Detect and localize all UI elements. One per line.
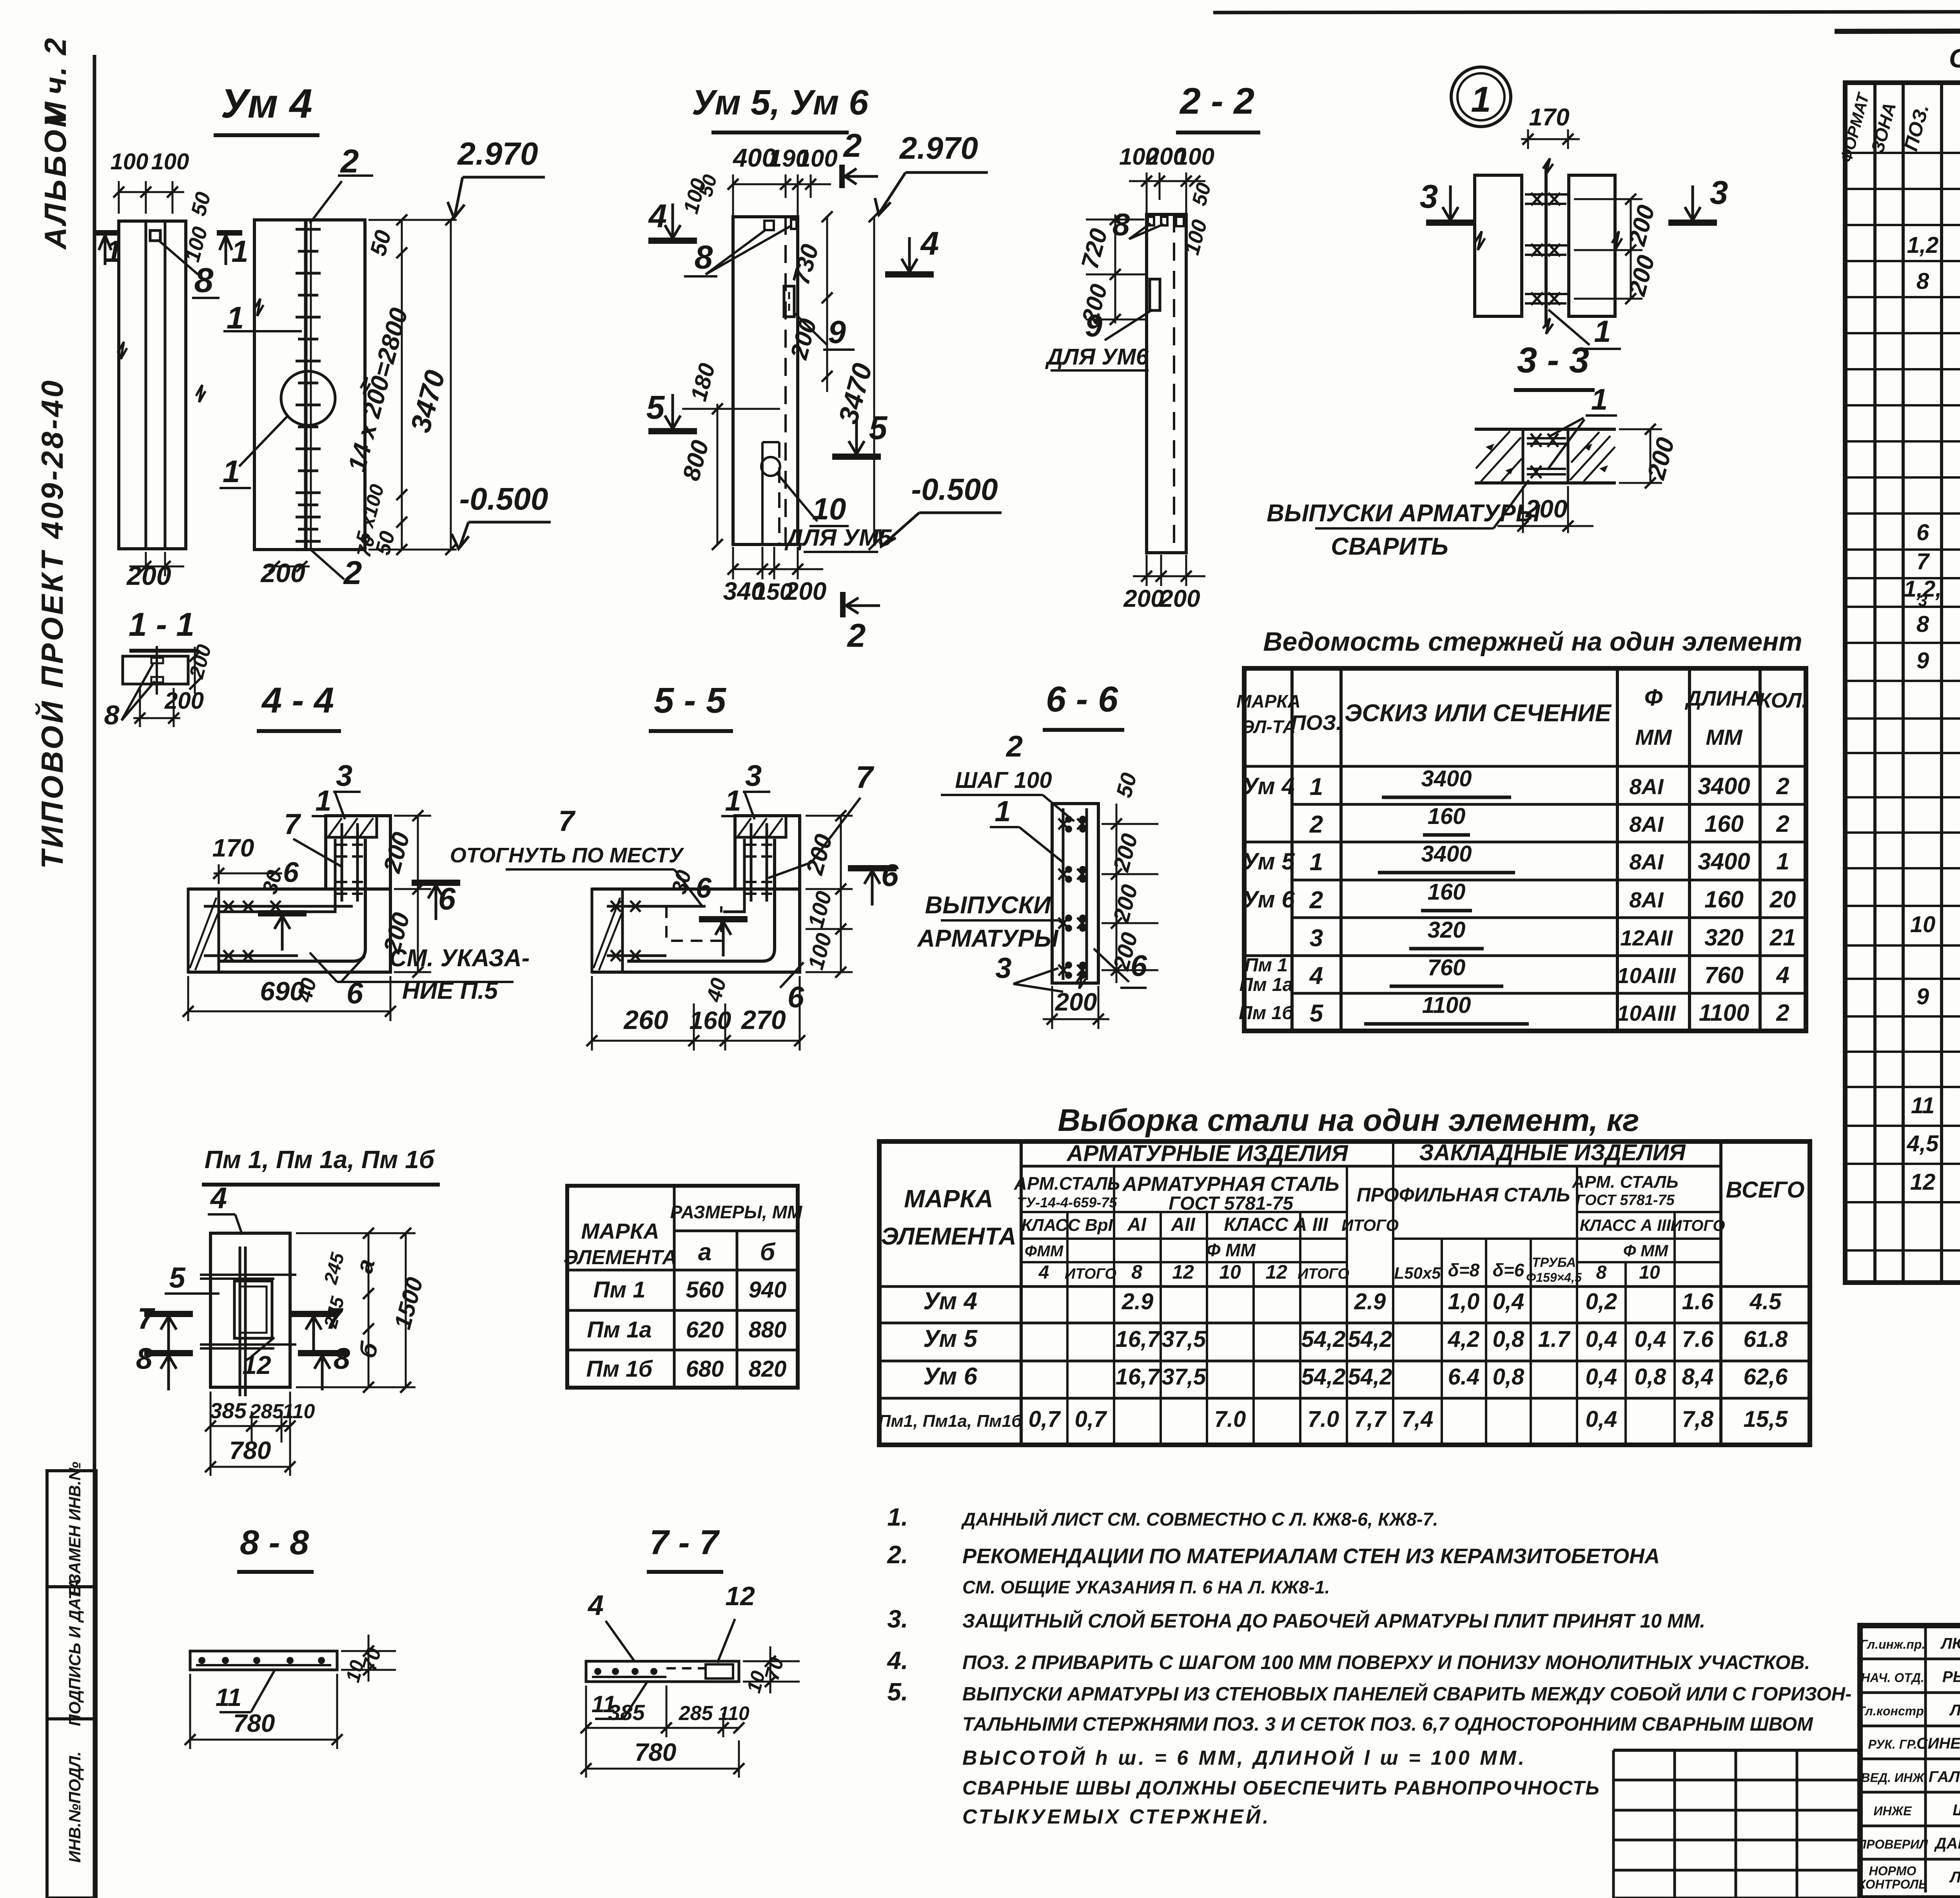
svg-text:6.4: 6.4 bbox=[1448, 1364, 1480, 1390]
svg-text:1: 1 bbox=[1310, 849, 1323, 876]
svg-text:ВЗАМЕН ИНВ.№: ВЗАМЕН ИНВ.№ bbox=[65, 1462, 84, 1596]
svg-text:940: 940 bbox=[749, 1277, 787, 1303]
Um4 leader to label 1 (detail) bbox=[239, 416, 287, 466]
svg-text:8: 8 bbox=[334, 1342, 350, 1375]
svg-text:4,5: 4,5 bbox=[1907, 1131, 1939, 1156]
svg-text:СТЫКУЕМЫХ СТЕРЖНЕЙ.: СТЫКУЕМЫХ СТЕРЖНЕЙ. bbox=[962, 1805, 1271, 1828]
svg-text:7: 7 bbox=[1916, 549, 1930, 574]
svg-text:4: 4 bbox=[648, 198, 667, 234]
svg-text:8,4: 8,4 bbox=[1682, 1364, 1714, 1390]
svg-text:8: 8 bbox=[194, 261, 214, 299]
svg-text:10АIII: 10АIII bbox=[1617, 963, 1676, 988]
Um5 embed plate pos.9 bbox=[784, 286, 794, 317]
svg-text:4,2: 4,2 bbox=[1448, 1326, 1480, 1352]
svg-text:8: 8 bbox=[136, 1342, 153, 1375]
svg-text:Ум 6: Ум 6 bbox=[923, 1363, 978, 1390]
svg-text:-0.500: -0.500 bbox=[911, 472, 998, 506]
svg-text:ТУ-14-4-659-75: ТУ-14-4-659-75 bbox=[1017, 1194, 1117, 1210]
svg-text:Ум 6: Ум 6 bbox=[1242, 886, 1295, 913]
svg-text:1: 1 bbox=[1594, 314, 1611, 348]
svg-text:2: 2 bbox=[1005, 730, 1023, 763]
3-3 joint bars with X bbox=[1527, 437, 1566, 439]
svg-text:ЛЮБАВИН: ЛЮБАВИН bbox=[1940, 1635, 1960, 1652]
svg-text:200: 200 bbox=[164, 688, 204, 714]
svg-text:ДАННЫЙ ЛИСТ СМ. СОВМЕСТНО: ДАННЫЙ ЛИСТ СМ. СОВМЕСТНО С Л. КЖ8-6, КЖ… bbox=[961, 1509, 1438, 1530]
svg-text:385: 385 bbox=[608, 1700, 645, 1725]
svg-text:100: 100 bbox=[1175, 143, 1214, 170]
detail 1 circle badge bbox=[1451, 67, 1511, 127]
svg-text:200: 200 bbox=[1055, 988, 1097, 1016]
svg-text:ПОДПИСЬ И ДАТА: ПОДПИСЬ И ДАТА bbox=[65, 1578, 84, 1726]
spec table frame bbox=[1845, 83, 1960, 1283]
svg-text:СВАРНЫЕ ШВЫ ДОЛЖНЫ ОБЕСПЕЧИ: СВАРНЫЕ ШВЫ ДОЛЖНЫ ОБЕСПЕЧИТЬ РАВНОПРОЧН… bbox=[962, 1777, 1600, 1799]
svg-text:а: а bbox=[350, 1256, 380, 1276]
svg-text:560: 560 bbox=[686, 1277, 724, 1303]
svg-text:200: 200 bbox=[1108, 882, 1143, 925]
svg-text:8: 8 bbox=[104, 700, 120, 730]
svg-text:10АIII: 10АIII bbox=[1617, 1001, 1676, 1025]
svg-text:ВСЕГО: ВСЕГО bbox=[1726, 1177, 1805, 1203]
svg-text:ДЛЯ УМ6: ДЛЯ УМ6 bbox=[1045, 344, 1149, 370]
Um5 elevation outline bbox=[733, 217, 798, 544]
2-2 outline bbox=[1147, 214, 1186, 553]
svg-text:1: 1 bbox=[231, 234, 248, 269]
svg-text:ФММ: ФММ bbox=[1025, 1243, 1064, 1260]
Um5 section mark 4 left bbox=[648, 238, 697, 244]
2-2 embed plate pos.9 bbox=[1150, 279, 1160, 310]
svg-text:6: 6 bbox=[438, 881, 456, 916]
svg-text:7.0: 7.0 bbox=[1214, 1406, 1246, 1432]
Um4 left elevation outline bbox=[119, 221, 186, 549]
svg-text:5.: 5. bbox=[887, 1678, 908, 1706]
svg-text:ВЕД. ИНЖ: ВЕД. ИНЖ bbox=[1861, 1771, 1925, 1785]
svg-text:2.9: 2.9 bbox=[1122, 1289, 1154, 1314]
svg-text:2.9: 2.9 bbox=[1354, 1289, 1386, 1314]
svg-text:АРМ.СТАЛЬ: АРМ.СТАЛЬ bbox=[1014, 1173, 1120, 1194]
svg-text:ЭЛ-ТА: ЭЛ-ТА bbox=[1241, 717, 1296, 737]
svg-text:4: 4 bbox=[920, 225, 939, 262]
svg-text:270: 270 bbox=[740, 1005, 786, 1035]
svg-text:0,4: 0,4 bbox=[1493, 1289, 1524, 1314]
sheet frame left border line bbox=[93, 55, 96, 1898]
7-7 embedded channel pos.12 bbox=[706, 1664, 733, 1678]
svg-text:4: 4 bbox=[587, 1590, 604, 1621]
svg-text:1100: 1100 bbox=[1699, 1000, 1749, 1026]
svg-text:ДЛИНА: ДЛИНА bbox=[1685, 687, 1762, 710]
8-8 dim 780 bbox=[190, 1739, 337, 1741]
svg-text:200: 200 bbox=[378, 829, 415, 876]
svg-text:МАРКА: МАРКА bbox=[1236, 691, 1301, 711]
Um4 right elevation outline bbox=[254, 220, 365, 550]
svg-text:12АII: 12АII bbox=[1620, 925, 1673, 950]
approval grid left of title block bbox=[1613, 1749, 1860, 1752]
svg-text:АРМАТУРНАЯ СТАЛЬ: АРМАТУРНАЯ СТАЛЬ bbox=[1122, 1173, 1339, 1196]
Um4 break marks left rect bbox=[118, 342, 127, 359]
svg-text:0,8: 0,8 bbox=[1493, 1364, 1524, 1390]
svg-text:260: 260 bbox=[623, 1005, 668, 1035]
Um4 embed plate pos.8 bbox=[150, 230, 160, 241]
svg-text:320: 320 bbox=[1704, 924, 1744, 951]
svg-text:110: 110 bbox=[283, 1400, 315, 1423]
svg-text:2.970: 2.970 bbox=[899, 131, 978, 165]
svg-text:7.0: 7.0 bbox=[1308, 1406, 1339, 1432]
svg-text:4.: 4. bbox=[886, 1646, 908, 1675]
Um4 vertical dim chain 14x200=2800 / 3470 bbox=[401, 220, 403, 550]
svg-text:б: б bbox=[760, 1239, 776, 1266]
vedomost row lines bbox=[1292, 765, 1806, 768]
Um5 section mark 2 top bbox=[839, 165, 845, 188]
svg-text:7: 7 bbox=[558, 805, 576, 837]
svg-text:Гл.констр.: Гл.констр. bbox=[1858, 1704, 1927, 1718]
svg-text:160: 160 bbox=[1704, 811, 1744, 837]
svg-text:100: 100 bbox=[803, 889, 837, 931]
svg-text:Пм 1а: Пм 1а bbox=[1240, 974, 1293, 995]
svg-text:3: 3 bbox=[1710, 174, 1728, 211]
svg-text:АРМАТУРНЫЕ ИЗДЕЛИЯ: АРМАТУРНЫЕ ИЗДЕЛИЯ bbox=[1066, 1141, 1348, 1166]
svg-text:1.6: 1.6 bbox=[1682, 1289, 1714, 1314]
svg-text:СМ. ОБЩИЕ УКАЗАНИЯ П. 6: СМ. ОБЩИЕ УКАЗАНИЯ П. 6 НА Л. КЖ8-1. bbox=[962, 1577, 1330, 1597]
svg-text:780: 780 bbox=[635, 1738, 677, 1766]
svg-text:0,4: 0,4 bbox=[1635, 1326, 1666, 1352]
5-5 X weld marks bbox=[611, 901, 621, 912]
svg-text:8: 8 bbox=[1916, 611, 1929, 637]
svg-text:2: 2 bbox=[340, 143, 359, 180]
svg-text:37,5: 37,5 bbox=[1162, 1364, 1207, 1390]
Um5 leaders to label 8 bbox=[706, 229, 766, 274]
svg-text:12: 12 bbox=[1910, 1169, 1936, 1195]
3-3 left hatched panel bbox=[1476, 431, 1510, 468]
svg-text:3 - 3: 3 - 3 bbox=[1517, 340, 1589, 380]
Pm1 inner embed frame pos.12 bbox=[234, 1281, 272, 1338]
detail 1 weld bars with X marks bbox=[1525, 193, 1568, 196]
svg-text:5: 5 bbox=[646, 389, 665, 426]
svg-text:54,2: 54,2 bbox=[1301, 1326, 1346, 1352]
svg-text:50: 50 bbox=[365, 227, 396, 258]
svg-text:620: 620 bbox=[686, 1317, 724, 1343]
svg-text:200: 200 bbox=[1642, 434, 1680, 483]
svg-text:ТИПОВОЙ: ТИПОВОЙ bbox=[35, 699, 69, 869]
svg-text:5: 5 bbox=[1310, 1000, 1324, 1027]
svg-text:2: 2 bbox=[1776, 773, 1789, 799]
2-2 dashed axis bbox=[1173, 214, 1175, 553]
svg-text:КЛАСС А III: КЛАСС А III bbox=[1580, 1216, 1671, 1234]
svg-text:Пм 1б: Пм 1б bbox=[1239, 1003, 1294, 1023]
svg-text:5: 5 bbox=[869, 409, 888, 446]
svg-text:ПРОФИЛЬНАЯ СТАЛЬ: ПРОФИЛЬНАЯ СТАЛЬ bbox=[1357, 1184, 1570, 1206]
svg-text:385: 385 bbox=[210, 1398, 247, 1423]
svg-text:АII: АII bbox=[1171, 1214, 1196, 1235]
svg-text:0,8: 0,8 bbox=[1635, 1364, 1666, 1390]
svg-text:0,7: 0,7 bbox=[1029, 1406, 1061, 1432]
svg-text:6: 6 bbox=[696, 873, 712, 904]
svg-text:3470: 3470 bbox=[405, 367, 451, 435]
svg-text:1100: 1100 bbox=[1422, 993, 1471, 1018]
vyborka vertical lines bbox=[1066, 1212, 1069, 1445]
Um4 break marks right rect bbox=[361, 377, 370, 394]
svg-text:690: 690 bbox=[260, 976, 305, 1006]
svg-text:Пм 1б: Пм 1б bbox=[586, 1356, 653, 1382]
svg-text:1500: 1500 bbox=[389, 1275, 428, 1332]
6-6 dims right 50 200x3 bbox=[1116, 804, 1118, 983]
svg-text:КЛАСС А III: КЛАСС А III bbox=[1224, 1214, 1328, 1235]
svg-text:Ум 5: Ум 5 bbox=[1242, 848, 1295, 875]
Pm1 size table bbox=[567, 1186, 798, 1388]
svg-text:ПОЗ.: ПОЗ. bbox=[1291, 711, 1342, 735]
svg-text:16,7: 16,7 bbox=[1116, 1326, 1161, 1352]
svg-text:ЛАПКИН: ЛАПКИН bbox=[1949, 1702, 1960, 1719]
svg-text:ВЫПУСКИ АРМАТУРЫ ИЗ СТЕНОВЫХ: ВЫПУСКИ АРМАТУРЫ ИЗ СТЕНОВЫХ ПАНЕЛЕЙ СВА… bbox=[962, 1683, 1851, 1705]
Um4 detail circle on rebar bbox=[281, 371, 335, 425]
svg-text:4: 4 bbox=[1776, 962, 1789, 988]
svg-text:2: 2 bbox=[1309, 811, 1323, 838]
svg-text:2: 2 bbox=[1776, 811, 1789, 837]
svg-text:Пм 1, Пм 1а, Пм 1б: Пм 1, Пм 1а, Пм 1б bbox=[205, 1145, 436, 1174]
svg-text:720: 720 bbox=[1076, 226, 1112, 272]
detail 1 plan: left panel bbox=[1475, 175, 1522, 316]
5-5 top hatched block bbox=[735, 816, 786, 837]
svg-text:8: 8 bbox=[1596, 1262, 1607, 1283]
Um5 bottom inset dashed bbox=[761, 442, 764, 544]
svg-text:2 - 2: 2 - 2 bbox=[1179, 80, 1254, 122]
svg-text:0,8: 0,8 bbox=[1493, 1326, 1524, 1352]
svg-text:8 - 8: 8 - 8 bbox=[240, 1523, 309, 1562]
5-5 dims right 200 100 100 bbox=[840, 816, 842, 972]
Um5 section mark 5 right bbox=[832, 454, 881, 460]
svg-text:8: 8 bbox=[695, 239, 713, 276]
svg-text:ВЫСОТОЙ h ш. = 6 ММ, ДЛИНО: ВЫСОТОЙ h ш. = 6 ММ, ДЛИНОЙ l ш = 100 ММ… bbox=[962, 1746, 1526, 1769]
Pm1 section marks 7 8 left bbox=[144, 1311, 193, 1317]
svg-text:Ф: Ф bbox=[1644, 684, 1663, 711]
svg-text:КОНТРОЛЬ: КОНТРОЛЬ bbox=[1858, 1877, 1927, 1891]
svg-text:54,2: 54,2 bbox=[1348, 1364, 1392, 1390]
svg-text:1: 1 bbox=[1471, 80, 1491, 120]
svg-text:ВЫПУСКИ АРМАТУРЫ: ВЫПУСКИ АРМАТУРЫ bbox=[1267, 500, 1541, 527]
svg-text:ЭЛЕМЕНТА: ЭЛЕМЕНТА bbox=[563, 1246, 677, 1269]
svg-text:НАЧ. ОТД.: НАЧ. ОТД. bbox=[1861, 1671, 1924, 1685]
svg-text:4.5: 4.5 bbox=[1749, 1289, 1782, 1314]
svg-text:ЭСКИЗ ИЛИ СЕЧЕНИЕ: ЭСКИЗ ИЛИ СЕЧЕНИЕ bbox=[1345, 700, 1612, 727]
Um5 section mark 4 right bbox=[885, 271, 934, 278]
svg-text:ПОЗ. 2 ПРИВАРИТЬ С ШАГОМ 100: ПОЗ. 2 ПРИВАРИТЬ С ШАГОМ 100 ММ ПОВЕРХУ … bbox=[962, 1651, 1810, 1673]
svg-text:160: 160 bbox=[1428, 804, 1466, 829]
svg-text:9: 9 bbox=[828, 314, 846, 350]
svg-text:5 - 5: 5 - 5 bbox=[654, 680, 727, 720]
svg-text:АРМАТУРЫ: АРМАТУРЫ bbox=[916, 925, 1059, 952]
5-5 stepped bar pos.7 dashed bbox=[666, 906, 721, 941]
svg-text:ПРОЕКТ 409-28-40: ПРОЕКТ 409-28-40 bbox=[35, 378, 69, 688]
svg-text:1: 1 bbox=[105, 234, 122, 269]
svg-text:Ум 5, Ум 6: Ум 5, Ум 6 bbox=[692, 83, 869, 122]
4-4 X weld marks on slab bars bbox=[223, 901, 234, 912]
svg-text:L50x5: L50x5 bbox=[1394, 1264, 1441, 1282]
svg-text:ИТОГО: ИТОГО bbox=[1671, 1217, 1725, 1234]
svg-text:3400: 3400 bbox=[1421, 841, 1472, 867]
svg-text:1: 1 bbox=[1776, 848, 1789, 875]
svg-text:3: 3 bbox=[1310, 925, 1323, 952]
inventory stamp boxes bottom-left bbox=[47, 1471, 96, 1898]
svg-text:200: 200 bbox=[1123, 585, 1164, 612]
svg-text:0,4: 0,4 bbox=[1586, 1326, 1617, 1352]
svg-text:200: 200 bbox=[1108, 831, 1143, 875]
svg-text:200: 200 bbox=[801, 831, 838, 878]
svg-text:ШАБЛЯ: ШАБЛЯ bbox=[1953, 1802, 1960, 1819]
4-4 label 6 with section arrow bbox=[412, 880, 460, 886]
svg-text:Ум 5: Ум 5 bbox=[923, 1325, 978, 1352]
svg-text:7.6: 7.6 bbox=[1682, 1326, 1714, 1352]
svg-text:20: 20 bbox=[1769, 886, 1796, 913]
svg-text:6: 6 bbox=[283, 857, 299, 888]
svg-text:245: 245 bbox=[320, 1294, 349, 1330]
4-4 L-bar pos.6 bbox=[220, 839, 365, 961]
svg-text:1: 1 bbox=[223, 454, 240, 489]
svg-text:6: 6 bbox=[881, 858, 899, 893]
Um5 bottom dims 340 150 200 bbox=[733, 568, 823, 570]
vyborka header: armaturnye / zakladnye bbox=[1021, 1165, 1721, 1168]
title block personnel rows bbox=[1860, 1658, 1960, 1660]
svg-text:0,4: 0,4 bbox=[1586, 1406, 1617, 1432]
7-7 dims 385 285 110 bbox=[586, 1727, 739, 1729]
svg-text:285: 285 bbox=[679, 1702, 713, 1725]
Pm1 section marks 7 8 right bbox=[289, 1311, 338, 1317]
svg-text:7: 7 bbox=[284, 808, 301, 840]
svg-text:780: 780 bbox=[233, 1709, 275, 1737]
Pm1 vertical double bar pos.4 bbox=[239, 1247, 241, 1396]
svg-text:6: 6 bbox=[1916, 520, 1929, 545]
svg-text:7,8: 7,8 bbox=[1682, 1406, 1714, 1432]
svg-text:1,2: 1,2 bbox=[1907, 232, 1939, 258]
svg-text:ВЫПУСКИ: ВЫПУСКИ bbox=[925, 892, 1051, 919]
svg-text:160: 160 bbox=[690, 1006, 731, 1034]
svg-text:Ум 4: Ум 4 bbox=[1242, 773, 1295, 799]
svg-text:2: 2 bbox=[1776, 1000, 1789, 1026]
svg-text:11: 11 bbox=[1911, 1093, 1935, 1118]
svg-text:2: 2 bbox=[847, 617, 866, 654]
2-2 embed squares bbox=[1148, 217, 1154, 225]
svg-text:15,5: 15,5 bbox=[1744, 1406, 1788, 1432]
svg-text:880: 880 bbox=[749, 1317, 787, 1343]
svg-text:4: 4 bbox=[1038, 1262, 1049, 1283]
svg-text:3: 3 bbox=[745, 759, 762, 793]
svg-text:200: 200 bbox=[785, 316, 822, 363]
section 1-1 slab bbox=[123, 656, 188, 684]
2-2 dims left rotated 720 200 bbox=[1114, 214, 1116, 323]
svg-text:200: 200 bbox=[1623, 202, 1660, 249]
svg-text:ИТОГО: ИТОГО bbox=[1341, 1216, 1399, 1234]
Pm1 dims right 245 245 a b 1500 bbox=[368, 1233, 370, 1387]
svg-text:δ=6: δ=6 bbox=[1493, 1260, 1524, 1280]
svg-text:0,4: 0,4 bbox=[1586, 1364, 1617, 1390]
svg-text:АI: АI bbox=[1127, 1214, 1147, 1235]
svg-text:6: 6 bbox=[788, 981, 804, 1014]
svg-text:2.: 2. bbox=[887, 1541, 908, 1569]
svg-text:ГОСТ 5781-75: ГОСТ 5781-75 bbox=[1576, 1192, 1675, 1208]
leader to label 8 bbox=[158, 240, 198, 274]
svg-text:21: 21 bbox=[1769, 924, 1796, 951]
svg-text:7 - 7: 7 - 7 bbox=[650, 1523, 720, 1562]
svg-text:100: 100 bbox=[797, 145, 837, 172]
4-4 left hatched slab end bbox=[188, 889, 219, 972]
svg-text:2: 2 bbox=[843, 127, 862, 164]
svg-text:8АI: 8АI bbox=[1629, 849, 1664, 874]
vyborka table frame bbox=[879, 1141, 1810, 1445]
svg-text:110: 110 bbox=[718, 1702, 750, 1724]
svg-text:100: 100 bbox=[151, 149, 189, 174]
Um5 embed squares top bbox=[764, 221, 774, 230]
svg-text:-0.500: -0.500 bbox=[459, 481, 548, 516]
svg-text:ГАЛЬПЕРИНА: ГАЛЬПЕРИНА bbox=[1929, 1768, 1960, 1785]
vyborka class row bbox=[1021, 1211, 1347, 1213]
svg-text:ИНВ.№ПОДЛ.: ИНВ.№ПОДЛ. bbox=[65, 1751, 84, 1863]
svg-text:НОРМО: НОРМО bbox=[1869, 1864, 1916, 1878]
svg-text:7: 7 bbox=[856, 760, 875, 795]
svg-text:100: 100 bbox=[803, 931, 837, 973]
3-3 right hatched panel bbox=[1570, 436, 1610, 480]
svg-text:285: 285 bbox=[249, 1400, 284, 1423]
svg-text:ИТОГО: ИТОГО bbox=[1065, 1266, 1116, 1282]
svg-text:1: 1 bbox=[725, 784, 741, 817]
detail 1 center bar pos.1 bbox=[1544, 165, 1548, 327]
svg-text:Пм 1: Пм 1 bbox=[1245, 955, 1288, 976]
svg-text:8АI: 8АI bbox=[1629, 887, 1664, 912]
svg-text:АРМ. СТАЛЬ: АРМ. СТАЛЬ bbox=[1572, 1172, 1678, 1192]
2-2 bottom dims 200 200 bbox=[1133, 575, 1205, 577]
detail 1 plan: joint strip bbox=[1521, 175, 1523, 316]
svg-text:10: 10 bbox=[1639, 1262, 1660, 1283]
svg-text:3: 3 bbox=[1918, 591, 1927, 610]
svg-text:ДАВЫДОВА: ДАВЫДОВА bbox=[1934, 1835, 1960, 1852]
svg-text:ИТОГО: ИТОГО bbox=[1298, 1266, 1349, 1282]
detail 1 section marks 3-3 bbox=[1426, 220, 1475, 226]
svg-text:Ф ММ: Ф ММ bbox=[1623, 1241, 1668, 1260]
svg-text:12: 12 bbox=[242, 1350, 271, 1379]
vedomost table frame bbox=[1244, 668, 1806, 1031]
svg-text:ТАЛЬНЫМИ СТЕРЖНЯМИ ПОЗ. 3 И С: ТАЛЬНЫМИ СТЕРЖНЯМИ ПОЗ. 3 И СЕТОК ПОЗ. 6… bbox=[962, 1714, 1813, 1735]
svg-text:РЕКОМЕНДАЦИИ ПО МАТЕРИАЛАМ: РЕКОМЕНДАЦИИ ПО МАТЕРИАЛАМ СТЕН ИЗ КЕРАМ… bbox=[962, 1544, 1660, 1568]
svg-text:5: 5 bbox=[169, 1261, 186, 1294]
svg-text:4 - 4: 4 - 4 bbox=[261, 680, 334, 720]
svg-text:РАЗМЕРЫ, ММ: РАЗМЕРЫ, ММ bbox=[670, 1202, 803, 1222]
title block frame bbox=[1860, 1626, 1960, 1898]
svg-text:730: 730 bbox=[787, 241, 824, 288]
svg-text:8АI: 8АI bbox=[1629, 774, 1664, 799]
svg-text:160: 160 bbox=[1704, 886, 1744, 913]
svg-text:СИНЕЛЬНИКОВА: СИНЕЛЬНИКОВА bbox=[1916, 1735, 1960, 1752]
svg-text:Пм1, Пм1а, Пм1б: Пм1, Пм1а, Пм1б bbox=[878, 1412, 1023, 1431]
svg-text:Пм 1: Пм 1 bbox=[593, 1277, 646, 1303]
svg-text:Ум 4: Ум 4 bbox=[221, 81, 312, 127]
svg-text:7,7: 7,7 bbox=[1354, 1406, 1387, 1432]
Pm1 horizontal bars pos.5 bbox=[200, 1274, 296, 1276]
svg-text:Ф ММ: Ф ММ bbox=[1206, 1240, 1256, 1260]
svg-text:1.7: 1.7 bbox=[1538, 1326, 1571, 1352]
sheet frame top border line bbox=[1213, 11, 1960, 13]
svg-text:2: 2 bbox=[1309, 887, 1323, 914]
svg-text:11: 11 bbox=[216, 1683, 241, 1711]
Um4 vertical rebar pos.1 with welded cross bars bbox=[304, 220, 308, 550]
svg-text:ЭЛЕМЕНТА: ЭЛЕМЕНТА bbox=[881, 1223, 1016, 1250]
svg-text:200: 200 bbox=[1623, 252, 1660, 299]
svg-text:7: 7 bbox=[138, 1302, 156, 1335]
5-5 L-shaped joint outline bbox=[592, 816, 800, 889]
svg-text:ЗАКЛАДНЫЕ ИЗДЕЛИЯ: ЗАКЛАДНЫЕ ИЗДЕЛИЯ bbox=[1419, 1140, 1686, 1165]
3-3 section drawing bbox=[1475, 428, 1616, 431]
svg-text:820: 820 bbox=[749, 1356, 787, 1382]
svg-text:1 - 1: 1 - 1 bbox=[129, 606, 194, 643]
svg-text:РЫБКИНА: РЫБКИНА bbox=[1942, 1668, 1960, 1686]
svg-text:1: 1 bbox=[227, 300, 244, 335]
svg-text:760: 760 bbox=[1704, 962, 1744, 988]
svg-text:РУК. ГР.: РУК. ГР. bbox=[1868, 1737, 1917, 1751]
